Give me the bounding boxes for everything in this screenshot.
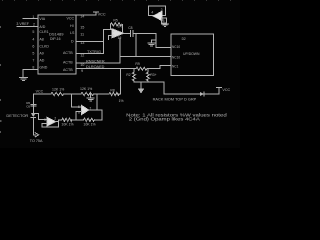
resistor R4 12K xyxy=(81,92,93,95)
bottom rail xyxy=(134,81,164,83)
svg-text:DIP-16: DIP-16 xyxy=(50,37,61,41)
U1 pin 6 xyxy=(32,45,49,49)
oscillator box U5 xyxy=(149,6,166,16)
svg-text:6: 6 xyxy=(32,45,34,49)
svg-text:10K 1%: 10K 1% xyxy=(83,123,95,127)
wire to box stub 1 xyxy=(156,33,171,47)
svg-text:NC1: NC1 xyxy=(172,65,179,69)
wire to off-page arrow xyxy=(33,118,35,135)
svg-text:VIA: VIA xyxy=(39,17,45,21)
resistor R9 (series in DLROAED) xyxy=(136,67,147,70)
node VREF xyxy=(16,22,45,29)
svg-text:2: 2 xyxy=(33,23,35,27)
svg-text:C8: C8 xyxy=(128,26,132,30)
ground G2 xyxy=(148,40,156,46)
detector label xyxy=(6,113,28,118)
svg-text:D2: D2 xyxy=(182,37,186,41)
scan artifact dotted top edge xyxy=(2,0,231,1)
svg-text:1%: 1% xyxy=(119,99,124,103)
component Y1 box xyxy=(162,18,167,23)
svg-text:2: 2 xyxy=(113,34,115,38)
R5 feedback wires xyxy=(110,24,122,33)
svg-text:TXTRIG: TXTRIG xyxy=(87,50,101,54)
svg-text:A9: A9 xyxy=(39,52,43,56)
U3A -input stub xyxy=(109,36,113,40)
power VCC (right) xyxy=(217,87,222,89)
net TXTRIG wire xyxy=(76,53,103,55)
svg-text:NC10: NC10 xyxy=(172,45,180,49)
U1 pin 8 GND xyxy=(32,66,47,70)
off-page connector arrow xyxy=(35,133,38,137)
svg-text:ACTB: ACTB xyxy=(63,51,73,55)
svg-text:1: 1 xyxy=(32,15,34,19)
svg-text:R5: R5 xyxy=(113,18,117,22)
left edge scan specks xyxy=(0,26,1,133)
U1 pin 4 xyxy=(32,38,43,42)
svg-text:CLR1: CLR1 xyxy=(39,30,48,34)
svg-text:3 VREF: 3 VREF xyxy=(16,22,29,26)
svg-text:2: 2 xyxy=(54,116,56,120)
svg-text:CLKD: CLKD xyxy=(39,45,49,49)
junction wire down from DLROAED xyxy=(119,69,121,94)
wire divider tap to +input xyxy=(72,94,82,107)
svg-text:5: 5 xyxy=(32,52,34,56)
svg-text:VCC: VCC xyxy=(67,16,75,20)
resistor R3 12K xyxy=(51,92,63,95)
svg-text:5: 5 xyxy=(32,30,34,34)
svg-text:C6: C6 xyxy=(26,104,30,108)
comparator U5A triangle xyxy=(153,11,162,20)
U1 pin 2 wire (VREF) xyxy=(17,25,38,27)
wire divider row xyxy=(33,93,120,95)
svg-text:DLROAED: DLROAED xyxy=(86,65,105,69)
svg-text:4: 4 xyxy=(151,10,153,14)
resistor R3b (vertical) xyxy=(147,69,150,82)
svg-text:7: 7 xyxy=(32,59,34,63)
resistor R8b 10K xyxy=(84,118,95,121)
IC U1 name label xyxy=(49,32,64,41)
capacitor C6 marks xyxy=(31,104,36,106)
U1 pin 11 xyxy=(80,33,84,37)
U3B -input wire xyxy=(76,112,82,120)
resistor R8 xyxy=(109,92,119,95)
U1 pin 1 wire xyxy=(23,17,38,19)
op-amp U3A xyxy=(112,29,124,38)
svg-text:GND: GND xyxy=(39,66,47,70)
svg-text:VCC: VCC xyxy=(222,88,230,92)
op-amp U3B xyxy=(82,105,89,114)
diode D1 xyxy=(31,113,36,117)
svg-text:10K 1%: 10K 1% xyxy=(61,123,73,127)
svg-text:ACTB: ACTB xyxy=(63,68,73,72)
wire rail to VCC stub xyxy=(164,82,219,94)
ground G1 xyxy=(20,78,28,81)
U1 pin 5b xyxy=(32,52,43,56)
U3C feedback loop xyxy=(42,122,58,127)
U3B output wire xyxy=(89,110,102,120)
svg-text:R3+: R3+ xyxy=(150,73,156,77)
svg-text:12: 12 xyxy=(80,54,84,58)
ground G4 (hanging) xyxy=(87,94,94,101)
svg-text:5: 5 xyxy=(78,105,80,109)
IC U1 body xyxy=(38,15,76,74)
svg-text:3: 3 xyxy=(44,118,46,122)
svg-text:12K 1%: 12K 1% xyxy=(52,88,64,92)
U3A below stub xyxy=(119,38,121,56)
capacitor C8 (series, output of U3A) xyxy=(124,30,157,36)
svg-text:HI: HI xyxy=(70,24,74,28)
svg-text:12K 1%: 12K 1% xyxy=(80,87,92,91)
arrow down symbol xyxy=(140,82,142,89)
svg-text:VCC: VCC xyxy=(98,13,106,17)
svg-text:A8: A8 xyxy=(39,38,43,42)
wire +input vertical bus xyxy=(103,29,112,53)
svg-text:LS: LS xyxy=(70,31,75,35)
ground G3 xyxy=(162,24,169,27)
svg-text:R9: R9 xyxy=(135,62,139,66)
svg-text:DETECTOR: DETECTOR xyxy=(6,113,28,118)
U1 pin 15 xyxy=(80,26,84,30)
svg-text:R2: R2 xyxy=(126,73,130,77)
svg-text:A/D: A/D xyxy=(39,25,45,29)
diode D2 (series) xyxy=(200,92,204,96)
svg-text:2 (Gnd) Opamp likes 4C4A: 2 (Gnd) Opamp likes 4C4A xyxy=(129,117,200,122)
svg-text:4: 4 xyxy=(32,38,34,42)
op-amp U3C (detector buffer) xyxy=(47,117,56,126)
resistor R2 (vertical) xyxy=(133,69,136,82)
svg-text:ACTB: ACTB xyxy=(63,60,73,64)
detector input vertical wire xyxy=(32,94,34,113)
svg-text:10: 10 xyxy=(80,63,84,67)
svg-text:9: 9 xyxy=(81,69,83,73)
U1 pin 13 wire xyxy=(76,40,103,42)
svg-text:14: 14 xyxy=(80,15,84,19)
power VCC (divider feed) xyxy=(36,89,44,93)
module box U4 (UP/DOWN) xyxy=(171,34,214,76)
wire R8b to output node xyxy=(95,119,102,121)
U1 pin 1 xyxy=(32,15,45,21)
svg-text:D: D xyxy=(71,39,74,43)
svg-text:AD: AD xyxy=(39,59,44,63)
svg-text:TO 75A: TO 75A xyxy=(30,139,43,143)
svg-text:13: 13 xyxy=(80,41,84,45)
wire diode to U3C +input xyxy=(33,113,47,119)
svg-text:2K: 2K xyxy=(118,24,123,28)
note text xyxy=(126,112,228,121)
wire R7-R8b xyxy=(72,119,84,121)
power VCC (top) xyxy=(94,11,99,13)
U1 inside right labels xyxy=(63,16,75,71)
U1 pin 5 xyxy=(32,30,48,34)
node TO 75A xyxy=(30,139,43,143)
U3C output wire xyxy=(56,120,62,122)
svg-text:5: 5 xyxy=(163,19,165,23)
svg-text:R8: R8 xyxy=(110,89,114,93)
svg-text:NC10: NC10 xyxy=(172,56,180,60)
svg-text:VCC: VCC xyxy=(36,89,44,93)
svg-text:RNSCNFR: RNSCNFR xyxy=(86,60,105,64)
resistor R5 (feedback) xyxy=(110,23,122,26)
U1 pin 8 wire xyxy=(23,70,38,78)
caption RACK MOUNT xyxy=(153,97,197,102)
U1 pin 14 wire to VCC xyxy=(76,12,96,15)
U1 pin 7 xyxy=(32,59,44,63)
net RNSCNFR wire xyxy=(76,57,171,63)
wire (vertical stub mid) xyxy=(135,33,137,56)
wire pull-up to output xyxy=(96,94,98,110)
svg-text:RACK MOM TOP D GRP: RACK MOM TOP D GRP xyxy=(153,97,197,102)
net DLROAED wire xyxy=(76,66,171,69)
resistor R7 10K xyxy=(62,118,72,121)
svg-text:UP/DOWN: UP/DOWN xyxy=(183,51,200,56)
svg-text:11: 11 xyxy=(80,33,84,37)
svg-text:12: 12 xyxy=(118,36,122,40)
svg-text:15: 15 xyxy=(80,26,84,30)
